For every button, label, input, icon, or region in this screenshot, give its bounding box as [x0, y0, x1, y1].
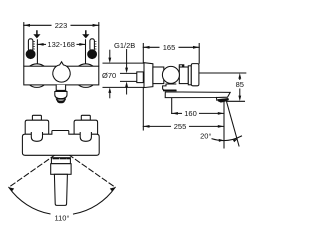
dim 160 ext left	[171, 98, 173, 113]
knurl ring	[51, 158, 70, 164]
svg-text:223: 223	[55, 21, 68, 30]
swivel arc right part	[74, 187, 116, 214]
svg-text:Ø70: Ø70	[102, 71, 116, 80]
dim 165 ext left	[142, 44, 144, 63]
spout tip step	[215, 98, 217, 101]
spout tube (bottom view)	[54, 174, 67, 205]
20 deg arrow at vertical line	[219, 139, 224, 142]
nipple cap right	[81, 115, 90, 120]
nipple collar	[137, 72, 144, 83]
supply nipple	[121, 73, 137, 81]
20 deg arc	[212, 136, 242, 141]
end cap	[191, 64, 199, 86]
dim 223 extension line right	[98, 23, 100, 66]
spout swivel housing	[163, 84, 176, 90]
svg-text:255: 255	[174, 122, 187, 131]
outlet vertical ref	[223, 101, 225, 148]
20 deg arrow at slant line	[233, 139, 238, 143]
dim 223 line	[24, 24, 51, 26]
dim 165 ext right	[198, 44, 200, 64]
G1/2B arrow bottom	[125, 82, 128, 95]
top button	[179, 65, 184, 67]
wall flange	[144, 63, 153, 88]
swivel arc left part	[9, 187, 50, 214]
union dome right	[80, 133, 91, 142]
dim 255 line	[143, 125, 170, 127]
body left tube	[153, 67, 164, 84]
bottom bar with boss	[22, 131, 99, 156]
body right tube	[179, 67, 188, 84]
housing bottom thick edge	[164, 90, 176, 92]
svg-text:132-168: 132-168	[47, 40, 75, 49]
dim 165 arrow right	[193, 46, 199, 49]
knob (side)	[162, 66, 179, 83]
dim diam70 ext bottom	[103, 86, 144, 88]
dim diam70 ext top	[103, 62, 144, 64]
swivel ray left (dashed)	[9, 150, 62, 187]
swivel collar	[51, 164, 71, 175]
dim 85 ref bottom	[228, 100, 245, 102]
escutcheon circle left	[25, 64, 49, 88]
svg-text:160: 160	[184, 109, 197, 118]
spout (side)	[165, 92, 230, 98]
svg-text:85: 85	[236, 80, 244, 89]
union dome left	[31, 133, 42, 142]
svg-text:165: 165	[163, 43, 176, 52]
dim 255 arrow right	[218, 125, 224, 128]
spout junction line	[56, 90, 66, 92]
thermometer hot (left)	[26, 39, 35, 59]
dim 255 arrow left	[143, 125, 149, 128]
thermometer cold (right)	[88, 39, 97, 59]
supply arrow right	[82, 31, 89, 38]
dim 165 arrow left	[143, 46, 149, 49]
dim 160 line	[172, 112, 182, 114]
dim 85 line bottom segment	[238, 89, 241, 101]
escutcheon square left	[25, 120, 49, 134]
dim diam70 arrow top	[108, 50, 111, 63]
svg-text:110°: 110°	[55, 214, 70, 223]
knurl marks	[53, 158, 70, 160]
arc arrow right	[110, 187, 115, 191]
20 deg slant line	[227, 102, 240, 147]
knob (front)	[53, 62, 70, 82]
dim 255 ext left	[142, 88, 144, 130]
dim 85 line top segment	[238, 73, 241, 80]
spout aerator cup (front)	[55, 92, 67, 99]
dim 132-168 line	[37, 43, 45, 45]
dim 165 line	[143, 46, 159, 48]
dim 223 arrow right	[93, 24, 99, 27]
dim 85 ref top	[199, 72, 246, 74]
collar ring	[188, 66, 191, 85]
supply arrow left	[33, 31, 40, 38]
dim 132-168 extension line left	[36, 40, 38, 66]
spout neck (front)	[56, 85, 65, 91]
nipple cap left	[32, 115, 41, 120]
dim 132-168 extension line right	[85, 40, 87, 66]
body bar	[24, 66, 99, 85]
aerator rings	[56, 99, 65, 101]
svg-text:20°: 20°	[200, 132, 211, 141]
arc arrow left	[9, 187, 14, 191]
dim 223 extension line left	[23, 23, 25, 66]
dim 223 arrow left	[24, 24, 30, 27]
dim 160 arrow right	[218, 112, 224, 115]
swivel ray right (dashed)	[62, 150, 115, 187]
escutcheon circle right	[74, 64, 98, 88]
outlet nozzle	[218, 98, 229, 102]
dim 132-168 arrow right	[79, 43, 85, 46]
G1/2B arrow top	[125, 50, 128, 74]
dim 132-168 arrow left	[37, 43, 43, 46]
svg-text:G1/2B: G1/2B	[114, 41, 135, 50]
escutcheon square right	[74, 120, 98, 134]
dim diam70 arrow bottom	[108, 87, 111, 97]
dim 160 arrow left	[172, 112, 178, 115]
